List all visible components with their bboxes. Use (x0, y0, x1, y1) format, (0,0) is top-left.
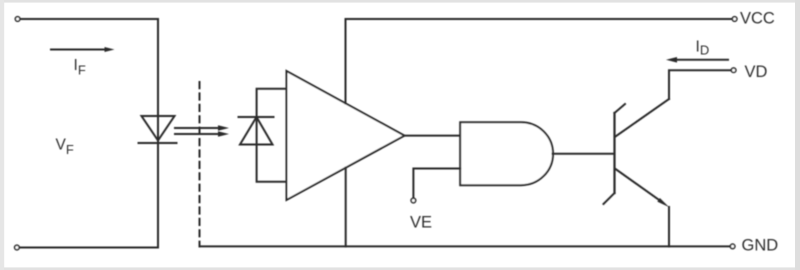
VE terminal (411, 198, 416, 203)
isolation barrier (dashed line) (199, 82, 201, 246)
amplifier U1 (287, 71, 405, 200)
current arrow ID (666, 57, 728, 63)
GND terminal (730, 244, 735, 249)
anode terminal (LED input +) (15, 17, 20, 22)
wire: VCC rail (346, 18, 733, 20)
photodiode D2 (239, 117, 274, 145)
wire: collector to VD terminal (669, 70, 731, 99)
wire: VE terminal to AND gate input (413, 169, 460, 199)
wire: VCC rail to amplifier (345, 19, 347, 103)
VD terminal (731, 68, 736, 73)
light emission arrows (175, 125, 229, 137)
wire: anode terminal to LED anode (19, 19, 158, 248)
svg-text:VD: VD (745, 63, 768, 81)
svg-text:VCC: VCC (740, 10, 775, 28)
cathode terminal (LED input −) (15, 245, 20, 250)
wire: amplifier output to AND gate (405, 135, 461, 137)
VCC terminal (732, 17, 737, 22)
wire: GND rail (200, 245, 731, 247)
current arrow IF (51, 47, 115, 52)
wire: amplifier to GND rail (345, 168, 347, 247)
wire: AND gate output to transistor base (553, 153, 615, 155)
svg-text:VE: VE (410, 214, 432, 232)
transistor Q1 (604, 99, 670, 207)
AND gate U2 (460, 122, 553, 185)
wire: photodiode cathode loop to amplifier (257, 89, 287, 182)
LED D1 (139, 116, 177, 143)
wire: emitter to GND rail (668, 207, 670, 246)
svg-text:GND: GND (742, 237, 779, 255)
